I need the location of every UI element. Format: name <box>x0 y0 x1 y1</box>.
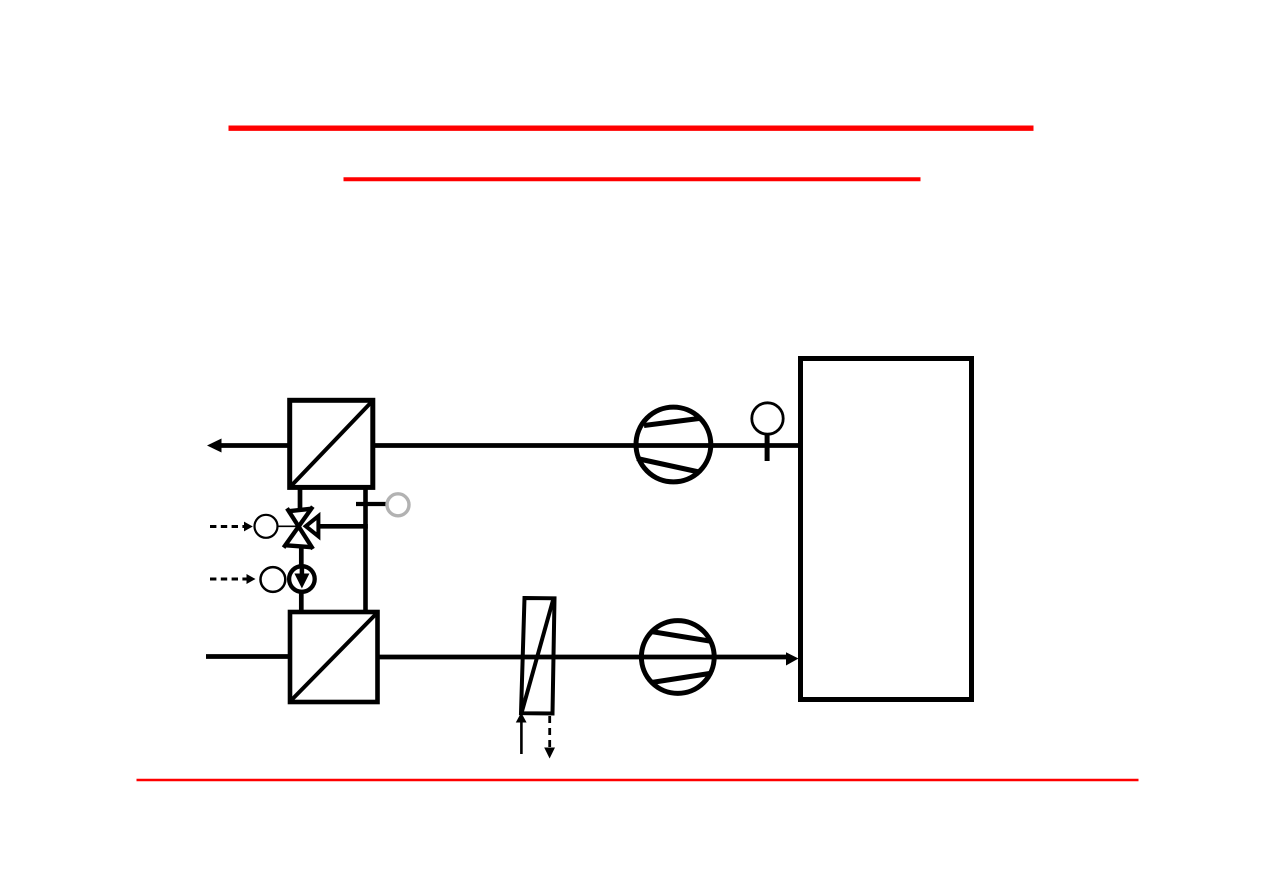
supply fan <box>641 621 714 694</box>
pipe: right riser between coils <box>363 489 368 612</box>
room temperature sensor <box>752 403 783 461</box>
room / zone box <box>801 359 972 700</box>
supply duct line left <box>206 654 290 659</box>
sensor tap line (gray sensor) <box>356 502 387 506</box>
control arrowhead to valve circle <box>244 522 253 532</box>
valve actuator signal circle <box>255 515 278 538</box>
pump P1 <box>289 566 315 592</box>
control arrowhead to pump circle <box>247 574 256 584</box>
controller line to valve <box>277 525 299 527</box>
pipe: stub from upper coil to valve <box>298 489 303 509</box>
dashed control signal to pump <box>210 578 247 581</box>
red title rule second <box>344 177 921 181</box>
exhaust duct arrowhead <box>207 439 222 453</box>
exhaust fan <box>636 407 711 482</box>
filter F1 <box>521 598 555 714</box>
filter dashed drain arrow down <box>544 716 555 759</box>
supply duct line right <box>378 655 789 660</box>
pump control signal circle <box>261 567 286 592</box>
supply duct arrowhead into room <box>786 652 799 665</box>
red title rule top <box>229 125 1034 130</box>
exhaust heat-recovery coil box <box>290 400 373 487</box>
supply heat-recovery coil box <box>290 612 378 702</box>
pipe: pump to lower coil <box>299 592 304 612</box>
exhaust duct line right <box>373 443 800 448</box>
red footer rule <box>137 779 1139 782</box>
exhaust duct line <box>219 443 289 448</box>
dashed control signal to valve <box>210 525 245 528</box>
pipe: valve to riser <box>314 524 368 529</box>
filter fresh-air arrow up <box>516 713 527 755</box>
gray sensor circle <box>387 494 409 516</box>
pipe: valve to pump <box>299 547 304 566</box>
3-way valve V1 <box>284 507 319 549</box>
